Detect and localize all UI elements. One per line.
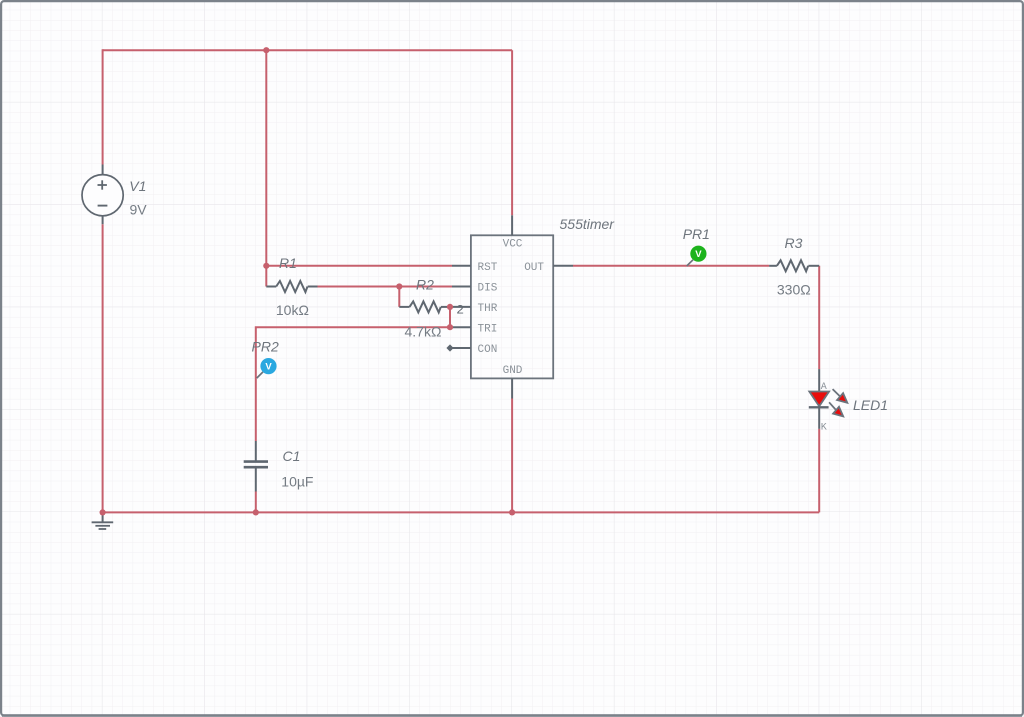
svg-text:555timer: 555timer <box>560 216 616 232</box>
svg-text:LED1: LED1 <box>853 397 888 413</box>
wire: DIS junction down to R2 <box>398 287 400 307</box>
svg-text:K: K <box>821 423 827 434</box>
junction TRI <box>447 324 453 330</box>
LED light arrows <box>829 389 847 416</box>
pin stub GND <box>511 378 513 398</box>
svg-text:R3: R3 <box>785 235 803 251</box>
pin stub CON with open diamond terminal <box>450 347 471 349</box>
svg-text:10µF: 10µF <box>281 473 313 489</box>
probe PR1 <box>687 246 707 266</box>
wire: R3 corner down to LED <box>818 266 820 369</box>
wire: vertical branch to RST and R1 <box>265 50 267 286</box>
wire: R1 to DIS horizontal <box>318 286 453 288</box>
svg-text:DIS: DIS <box>478 283 498 295</box>
svg-text:A: A <box>821 382 827 393</box>
resistor R2 <box>399 301 450 312</box>
wire: bottom ground rail <box>103 511 820 513</box>
junction DIS/R2 <box>396 283 402 289</box>
wire: VCC vertical from top rail <box>511 50 513 215</box>
svg-text:GND: GND <box>503 365 523 377</box>
pin stub DIS <box>452 286 471 288</box>
wire: top V+ rail <box>103 49 512 51</box>
svg-text:V: V <box>695 249 702 260</box>
junction C1 bottom <box>253 509 259 515</box>
svg-text:PR1: PR1 <box>683 226 710 242</box>
svg-text:V1: V1 <box>129 178 146 194</box>
svg-text:R2: R2 <box>416 277 434 293</box>
LED LED1 <box>809 369 848 433</box>
pin stub OUT <box>553 265 573 267</box>
svg-text:10kΩ: 10kΩ <box>276 302 309 318</box>
junction 555 GND bottom <box>509 509 515 515</box>
pin stub VCC <box>511 215 513 235</box>
svg-text:2: 2 <box>456 302 464 317</box>
wire: THR junction down to TRI <box>449 307 451 327</box>
ground <box>92 512 114 529</box>
wire: left rail below V1 <box>102 224 104 512</box>
junction THR <box>447 304 453 310</box>
svg-text:9V: 9V <box>130 202 148 218</box>
junction on top rail <box>263 47 269 53</box>
wire: TRI horizontal to C1 branch <box>256 327 450 441</box>
pin stub TRI <box>450 326 471 328</box>
wire: RST horizontal <box>266 265 452 267</box>
svg-text:OUT: OUT <box>524 262 544 274</box>
wire: OUT horizontal to R3 <box>573 265 769 267</box>
svg-text:PR2: PR2 <box>252 339 279 355</box>
wire: C1 bottom to ground rail <box>255 492 257 513</box>
junction ground at V1 <box>100 509 106 515</box>
svg-text:R1: R1 <box>279 255 297 271</box>
svg-text:THR: THR <box>478 303 498 315</box>
svg-text:CON: CON <box>478 344 498 356</box>
svg-text:C1: C1 <box>283 448 301 464</box>
voltage source V1 <box>82 165 123 225</box>
wire: left rail above V1 <box>102 49 104 164</box>
probe PR2 <box>257 358 277 378</box>
svg-text:330Ω: 330Ω <box>777 281 811 297</box>
svg-text:V: V <box>265 362 272 373</box>
junction on RST wire <box>263 263 269 269</box>
wire: LED to bottom rail <box>818 429 820 513</box>
resistor R3 <box>769 260 819 271</box>
svg-text:TRI: TRI <box>478 324 498 336</box>
555 body box <box>471 235 553 378</box>
wire: GND vertical to bottom rail <box>511 399 513 513</box>
svg-text:RST: RST <box>478 262 498 274</box>
pin stub RST <box>452 265 471 267</box>
capacitor C1 <box>244 441 268 492</box>
555 timer U1 <box>446 215 573 398</box>
pin stub THR <box>450 306 471 308</box>
resistor R1 <box>266 281 317 292</box>
svg-text:4.7kΩ: 4.7kΩ <box>405 323 442 339</box>
svg-text:VCC: VCC <box>503 239 523 251</box>
